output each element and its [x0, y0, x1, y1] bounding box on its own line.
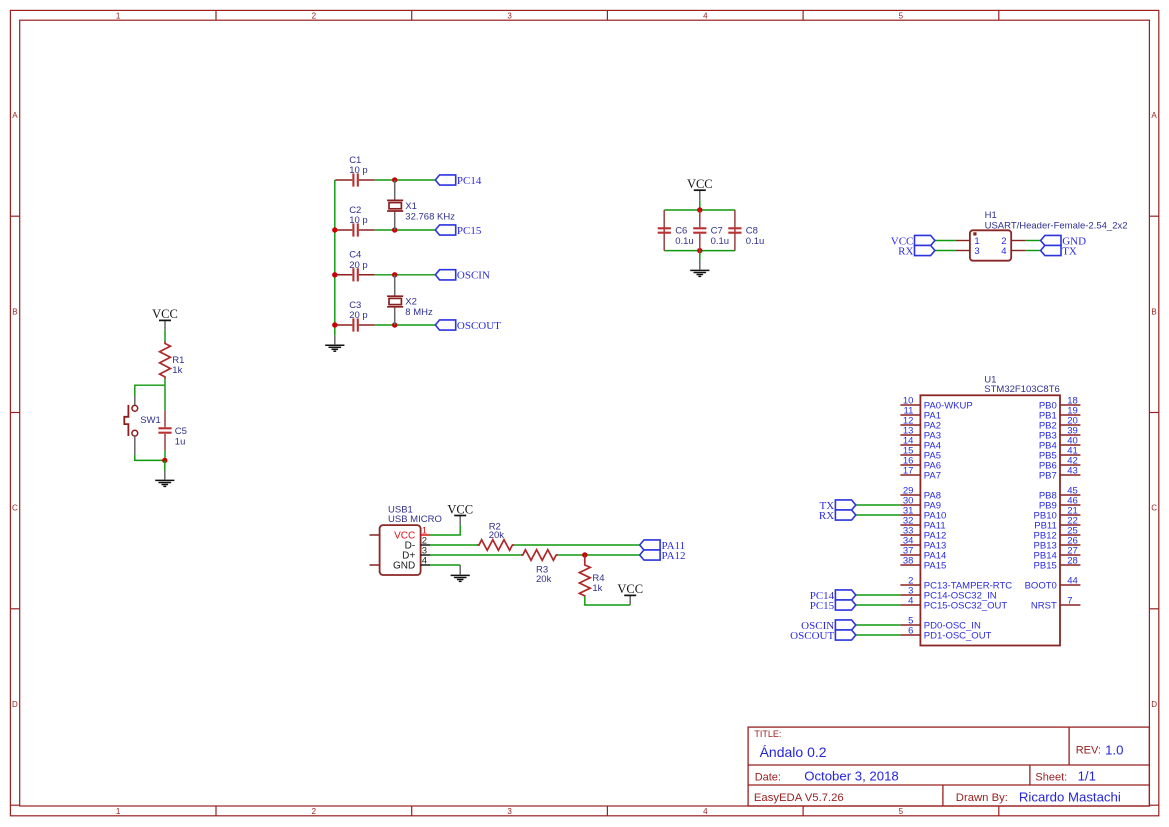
capacitor C8: [728, 225, 764, 247]
svg-text:RX: RX: [898, 245, 913, 257]
svg-text:0.1u: 0.1u: [746, 236, 765, 247]
svg-text:PC15-OSC32_OUT: PC15-OSC32_OUT: [924, 600, 1008, 611]
svg-text:X1: X1: [405, 201, 417, 212]
U1 pin 32 PA11: [900, 515, 945, 531]
svg-text:C8: C8: [746, 225, 758, 236]
port PC15 (to U1): [810, 600, 856, 612]
U1 pin 18 PB0: [1039, 395, 1081, 411]
U1 pin 5 PD0-OSC_IN: [900, 615, 981, 631]
U1 pin 41 PB5: [1039, 445, 1081, 461]
svg-text:B: B: [1151, 307, 1156, 316]
connector USB1: [380, 504, 442, 575]
U1 pin 34 PA13: [900, 535, 946, 551]
U1 pin 2 PC13-TAMPER-RTC: [900, 575, 1012, 591]
pin 2 lead: [1011, 240, 1026, 242]
svg-text:1: 1: [116, 11, 121, 20]
svg-text:A: A: [1151, 111, 1157, 120]
IC U1 body: [920, 374, 1060, 645]
svg-text:VCC: VCC: [152, 307, 178, 321]
wire pin4 to TX: [1026, 250, 1041, 252]
wire RX to U1: [856, 514, 901, 516]
svg-text:RX: RX: [819, 510, 834, 522]
svg-text:1: 1: [116, 807, 121, 816]
port PC15: [435, 225, 482, 237]
wire junction down: [164, 460, 166, 470]
U1 pin 19 PB1: [1039, 405, 1081, 421]
U1 pin 16 PA6: [900, 455, 941, 471]
svg-text:1.0: 1.0: [1105, 743, 1123, 758]
svg-text:6: 6: [908, 625, 913, 636]
svg-text:GND: GND: [393, 561, 415, 572]
resistor R3: [521, 550, 558, 585]
svg-text:PC14: PC14: [457, 175, 482, 187]
port TX (right): [1041, 245, 1077, 257]
U1 pin 3 PC14-OSC32_IN: [900, 585, 996, 601]
pin 4 lead: [1011, 250, 1026, 252]
svg-text:PA7: PA7: [924, 470, 941, 481]
wire pin2 to GND: [1026, 240, 1041, 242]
svg-text:1k: 1k: [592, 583, 602, 594]
svg-text:C4: C4: [349, 250, 361, 261]
capacitor C2: [335, 205, 374, 237]
svg-text:Sheet:: Sheet:: [1035, 772, 1067, 784]
svg-text:PB15: PB15: [1034, 560, 1057, 571]
U1 pin 13 PA3: [900, 425, 941, 441]
svg-text:10 p: 10 p: [349, 165, 368, 176]
svg-text:VCC: VCC: [447, 502, 473, 516]
svg-text:B: B: [12, 307, 17, 316]
wire pin4 to ground: [430, 564, 460, 566]
svg-text:5: 5: [899, 11, 904, 20]
capacitor C7: [693, 210, 729, 251]
svg-text:October 3, 2018: October 3, 2018: [804, 769, 899, 784]
pin 3 lead: [955, 250, 970, 252]
power flag VCC (top of C7): [687, 177, 713, 200]
svg-text:BOOT0: BOOT0: [1025, 580, 1057, 591]
ground (below C7): [690, 251, 709, 277]
power flag VCC (USB): [447, 502, 473, 525]
junction top C7: [697, 207, 702, 212]
port RX (to U1): [819, 510, 856, 522]
junction node row4: [392, 322, 397, 327]
U1 pin 20 PB2: [1039, 415, 1081, 431]
svg-text:1/1: 1/1: [1078, 769, 1096, 784]
pin 5 stub (left shield): [370, 534, 380, 536]
U1 pin 37 PA14: [900, 545, 946, 561]
U1 pin 11 PA1: [900, 405, 941, 421]
port RX (left): [898, 245, 935, 257]
svg-text:43: 43: [1067, 465, 1078, 476]
svg-text:8 MHz: 8 MHz: [405, 307, 433, 318]
junction node row1: [392, 177, 397, 182]
port GND (right): [1041, 235, 1086, 247]
U1 pin 22 PB11: [1034, 515, 1080, 531]
wire switch bottom corner: [135, 455, 165, 461]
svg-text:4: 4: [1001, 246, 1006, 257]
svg-text:R1: R1: [172, 355, 184, 366]
svg-text:NRST: NRST: [1031, 600, 1057, 611]
svg-text:17: 17: [903, 465, 914, 476]
svg-text:3: 3: [974, 246, 979, 257]
TITLEBLOCK: [748, 727, 1149, 806]
svg-text:Ándalo 0.2: Ándalo 0.2: [760, 744, 827, 760]
U1 pin 40 PB4: [1039, 435, 1081, 451]
svg-text:C1: C1: [349, 155, 361, 166]
svg-text:38: 38: [903, 555, 914, 566]
svg-text:20 p: 20 p: [349, 260, 368, 271]
svg-text:20k: 20k: [536, 574, 552, 585]
wire VCC stem: [699, 200, 701, 210]
U1 pin 39 PB3: [1039, 425, 1081, 441]
wire gray drop to switch: [134, 396, 136, 406]
port OSCIN: [435, 270, 490, 282]
svg-text:SW1: SW1: [140, 415, 161, 426]
U1 pin 44 BOOT0: [1025, 575, 1081, 591]
wire: left vertical bus: [334, 180, 336, 335]
wire bottom rail: [664, 250, 735, 252]
svg-text:PA12: PA12: [662, 550, 686, 562]
svg-text:0.1u: 0.1u: [711, 236, 730, 247]
wire C3 to node OSCOUT: [375, 324, 436, 326]
wire C4 to node OSCIN: [375, 274, 436, 276]
svg-text:C3: C3: [349, 300, 361, 311]
junction bus row4: [332, 322, 337, 327]
U1 pin 6 PD1-OSC_OUT: [900, 625, 991, 641]
U1 pin 4 PC15-OSC32_OUT: [900, 595, 1007, 611]
junction bottom: [162, 458, 167, 463]
U1 pin 42 PB6: [1039, 455, 1081, 471]
wire PC14 to U1: [856, 594, 901, 596]
port TX (to U1): [820, 500, 856, 512]
svg-text:1u: 1u: [175, 437, 186, 448]
junction bus row3: [332, 272, 337, 277]
wire pin3 to R3: [430, 554, 521, 556]
svg-text:Drawn By:: Drawn By:: [956, 792, 1008, 804]
capacitor C4: [335, 250, 374, 282]
wire C1 to node PC14: [375, 179, 436, 181]
wire C2 to node PC15: [375, 229, 436, 231]
svg-text:OSCIN: OSCIN: [457, 270, 490, 282]
svg-text:1k: 1k: [172, 365, 182, 376]
resistor R1: [160, 342, 185, 379]
wire top rail: [664, 209, 735, 211]
capacitor C5: [158, 410, 187, 450]
wire right drop: [734, 210, 736, 251]
wire PC15 to U1: [856, 604, 901, 606]
svg-text:R4: R4: [592, 573, 604, 584]
pin 6 stub (left shield): [370, 564, 380, 566]
power flag VCC (above R1): [152, 307, 178, 330]
wire TX to U1: [856, 504, 901, 506]
wire OSCIN to U1: [856, 624, 901, 626]
svg-text:C5: C5: [175, 426, 187, 437]
ground (reset): [155, 471, 174, 487]
U1 pin 43 PB7: [1039, 465, 1081, 481]
wire C5 to bottom junction: [164, 450, 166, 460]
port OSCOUT: [435, 320, 501, 332]
svg-text:PB7: PB7: [1039, 470, 1057, 481]
wire R2 to PA11: [514, 544, 639, 546]
U1 pin 28 PB15: [1034, 555, 1081, 571]
U1 pin 12 PA2: [900, 415, 941, 431]
wire RX to pin3: [935, 250, 955, 252]
U1 pin 45 PB8: [1039, 485, 1081, 501]
wire tee to switch branch: [135, 385, 165, 395]
svg-text:C: C: [12, 504, 18, 513]
pin 4 lead: [421, 564, 430, 566]
svg-text:10 p: 10 p: [349, 215, 368, 226]
U1 pin 25 PB12: [1034, 525, 1081, 541]
pin 1 lead: [955, 240, 970, 242]
svg-text:32.768 KHz: 32.768 KHz: [405, 211, 455, 222]
svg-text:PC15: PC15: [457, 225, 482, 237]
junction bottom C7: [697, 248, 702, 253]
U1 pin 38 PA15: [900, 555, 946, 571]
wire R1 bottom to tee: [164, 379, 166, 385]
power flag VCC (R4): [617, 582, 643, 605]
junction node row2: [392, 227, 397, 232]
U1 pin 33 PA12: [900, 525, 946, 541]
U1 pin 30 PA9: [900, 495, 941, 511]
svg-text:2: 2: [312, 807, 317, 816]
svg-text:H1: H1: [985, 210, 997, 221]
port PA12: [640, 550, 686, 562]
svg-text:2: 2: [312, 11, 317, 20]
U1 pin 7 NRST: [1031, 595, 1080, 611]
svg-text:44: 44: [1067, 575, 1078, 586]
svg-text:PD1-OSC_OUT: PD1-OSC_OUT: [924, 630, 992, 641]
svg-text:C: C: [1151, 504, 1157, 513]
svg-text:0.1u: 0.1u: [675, 236, 694, 247]
pin 1 lead (red): [421, 534, 430, 536]
port OSCIN (to U1): [801, 620, 856, 632]
wire pin1 to VCC: [430, 525, 460, 535]
svg-text:OSCOUT: OSCOUT: [457, 320, 501, 332]
svg-text:4: 4: [703, 807, 708, 816]
switch SW1: [124, 405, 160, 436]
U1 pin 46 PB9: [1039, 495, 1081, 511]
pin 3 lead: [421, 554, 430, 556]
svg-text:4: 4: [703, 11, 708, 20]
U1 pin 10 PA0-WKUP: [900, 395, 972, 411]
svg-text:EasyEDA V5.7.26: EasyEDA V5.7.26: [754, 792, 844, 804]
crystal X1: [387, 180, 455, 230]
port VCC (left): [891, 235, 935, 247]
port PA11: [640, 540, 685, 552]
svg-text:A: A: [12, 111, 18, 120]
wire OSCOUT to U1: [856, 634, 901, 636]
svg-text:D: D: [1151, 700, 1157, 709]
U1 pin 14 PA4: [900, 435, 941, 451]
svg-text:USART/Header-Female-2.54_2x2: USART/Header-Female-2.54_2x2: [985, 221, 1128, 232]
wire R1 tee down to C5: [164, 385, 166, 410]
port PC14: [435, 175, 482, 187]
crystal X2: [387, 275, 433, 325]
svg-text:7: 7: [1067, 595, 1072, 606]
svg-text:PA15: PA15: [924, 560, 947, 571]
junction R4 top: [582, 552, 587, 557]
svg-text:VCC: VCC: [617, 582, 643, 596]
capacitor C3: [335, 300, 374, 332]
wire VCC to R1: [164, 330, 166, 342]
wire R3 to PA12: [558, 554, 640, 556]
svg-text:20 p: 20 p: [349, 310, 368, 321]
svg-text:PC15: PC15: [810, 600, 835, 612]
U1 pin 21 PB10: [1034, 505, 1081, 521]
wire R4 bottom to VCC: [585, 596, 630, 605]
U1 pin 27 PB14: [1034, 545, 1081, 561]
U1 pin 15 PA5: [900, 445, 941, 461]
svg-text:USB MICRO: USB MICRO: [388, 514, 442, 525]
junction bus row2: [332, 227, 337, 232]
svg-text:4: 4: [908, 595, 913, 606]
port OSCOUT (to U1): [790, 630, 856, 642]
ground (USB): [451, 565, 470, 581]
U1 pin 26 PB13: [1034, 535, 1081, 551]
resistor R2: [477, 522, 514, 551]
wire left drop: [663, 210, 665, 251]
svg-text:5: 5: [899, 807, 904, 816]
svg-text:TITLE:: TITLE:: [754, 729, 781, 739]
resistor R4: [579, 555, 604, 596]
svg-text:STM32F103C8T6: STM32F103C8T6: [984, 384, 1060, 395]
U1 pin 31 PA10: [900, 505, 946, 521]
ground (crystal bus): [325, 335, 344, 351]
svg-text:3: 3: [507, 11, 512, 20]
wire VCC to pin1: [935, 240, 955, 242]
svg-text:3: 3: [507, 807, 512, 816]
svg-text:28: 28: [1067, 555, 1078, 566]
svg-text:VCC: VCC: [687, 177, 713, 191]
svg-text:C6: C6: [675, 225, 687, 236]
junction node row3: [392, 272, 397, 277]
svg-text:X2: X2: [405, 297, 417, 308]
pin 2 lead: [421, 544, 430, 546]
svg-text:D: D: [12, 700, 18, 709]
wire gray below switch: [134, 436, 136, 454]
svg-text:TX: TX: [1062, 245, 1077, 257]
port PC14 (to U1): [810, 590, 856, 602]
wire pin2 to R2: [430, 544, 477, 546]
svg-text:C2: C2: [349, 205, 361, 216]
connector H1: [970, 210, 1128, 261]
U1 pin 17 PA7: [900, 465, 941, 481]
svg-text:C7: C7: [711, 225, 723, 236]
svg-text:Date:: Date:: [755, 772, 781, 784]
svg-text:OSCOUT: OSCOUT: [790, 630, 834, 642]
svg-text:Ricardo Mastachi: Ricardo Mastachi: [1019, 790, 1121, 805]
capacitor C6: [658, 225, 694, 247]
svg-text:REV:: REV:: [1076, 745, 1101, 757]
U1 pin 29 PA8: [900, 485, 941, 501]
capacitor C1: [335, 155, 374, 187]
svg-text:20k: 20k: [489, 530, 505, 541]
